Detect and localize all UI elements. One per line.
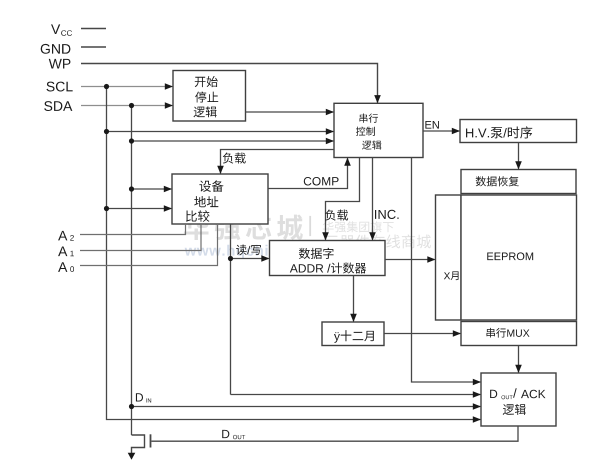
- wire SCL vertical down + to ACK logic: [107, 87, 481, 420]
- wire A0 to address compare: [80, 224, 218, 266]
- label A1 pin: [58, 247, 67, 257]
- text EEPROM: [487, 252, 533, 260]
- label A0 pin: [58, 262, 67, 272]
- watermark separator bar: [309, 216, 311, 236]
- wire data word to Y decoder: [353, 276, 355, 322]
- wire SDA branch to address compare: [132, 188, 172, 190]
- block: start/stop logic box: [173, 71, 246, 122]
- wire Din to ACK logic: [132, 406, 481, 408]
- node SDA junction: [129, 103, 134, 108]
- wire A1 to address compare: [80, 224, 201, 251]
- label Dout: [222, 430, 229, 438]
- block: X decoder box: [436, 195, 462, 320]
- text Dout/ACK line1: [490, 390, 497, 398]
- wire Vcc stub: [81, 28, 106, 30]
- block: serial MUX box: [461, 322, 577, 346]
- wire R/W vertical: [230, 224, 232, 395]
- wire Y decoder to serial MUX: [384, 333, 460, 335]
- block: Dout/ACK logic box: [481, 373, 556, 426]
- label load (lower): [325, 209, 348, 220]
- label WP pin: [49, 59, 71, 69]
- block: Y decoder box: [322, 322, 384, 346]
- label SCL pin: [46, 82, 72, 92]
- wire SCL to start/stop: [81, 86, 172, 88]
- text Dout/ACK line2: [503, 404, 526, 415]
- node SCL-ctl junction: [104, 129, 109, 134]
- text serial control line1: [360, 114, 379, 123]
- text device addr line2: [194, 196, 218, 207]
- block: device address compare box: [172, 174, 268, 224]
- label Din: [136, 393, 143, 401]
- text start/stop line1: [195, 76, 218, 87]
- text data word line1: [299, 248, 334, 259]
- wire GND stub: [81, 46, 106, 48]
- label EN: [425, 121, 439, 129]
- wire H.V. pump to data recovery: [518, 143, 520, 169]
- node SCL-cmp junction: [104, 206, 109, 211]
- transistor Q1 output MOSFET channel: [132, 435, 145, 455]
- text HV pump: [466, 126, 532, 138]
- wire serial MUX to ACK logic: [518, 346, 520, 373]
- node SCL junction: [104, 84, 109, 89]
- wire SCL branch to address compare: [107, 208, 172, 210]
- watermark www.hqchip.com: [185, 245, 315, 259]
- node Din junction: [129, 404, 134, 409]
- wire SDA to start/stop: [81, 105, 172, 107]
- node SDA-ctl junction: [129, 138, 134, 143]
- node SDA-cmp junction: [129, 186, 134, 191]
- text start/stop line2: [195, 92, 218, 103]
- wire load to data word counter: [326, 158, 360, 240]
- label SDA pin: [44, 101, 72, 111]
- wire start/stop to serial control: [246, 111, 334, 113]
- text serial MUX: [486, 328, 529, 338]
- wire R/W to ACK logic: [231, 394, 481, 396]
- watermark hqchip big text: [184, 214, 303, 240]
- wire R/W to data word counter: [231, 258, 269, 260]
- text addr counter line2: [290, 262, 366, 273]
- watermark group line 2: [325, 234, 431, 248]
- text Y decoder: [334, 330, 374, 343]
- wire serial control to ACK logic: [412, 158, 481, 383]
- wire load signal to address compare: [221, 150, 335, 174]
- text X decoder: [444, 271, 459, 280]
- text data recovery: [476, 176, 519, 186]
- label GND pin: [41, 44, 71, 54]
- text device addr line3: [186, 210, 210, 222]
- wire INC to data word counter: [372, 158, 374, 240]
- label INC.: [375, 210, 399, 219]
- wire WP to serial control top: [81, 64, 378, 103]
- label A2 pin: [58, 231, 67, 241]
- block: EEPROM array box: [461, 195, 577, 320]
- wire A2 to address compare: [80, 224, 186, 235]
- transistor Q1 gate bar: [150, 434, 152, 447]
- label load (upper): [223, 152, 246, 163]
- wire SCL branch to serial control: [107, 131, 334, 133]
- text serial control line3: [362, 140, 381, 149]
- wire EN to H.V. pump: [423, 130, 459, 132]
- watermark group line 1: [323, 221, 394, 232]
- wire data word to X decoder: [385, 259, 435, 261]
- wire COMP to serial control: [268, 158, 348, 188]
- node R/W junction: [228, 256, 233, 261]
- text start/stop line3: [193, 106, 216, 117]
- wire SDA branch to serial control: [132, 140, 334, 142]
- label COMP: [304, 177, 339, 186]
- block: H.V. pump/timing box: [460, 120, 577, 143]
- text serial control line2: [356, 127, 375, 136]
- block: data recovery box: [461, 170, 576, 194]
- block: serial control logic box: [334, 103, 423, 157]
- text device addr line1: [199, 180, 223, 192]
- wire Dout from ACK logic to output transistor gate: [151, 426, 518, 441]
- label Vcc pin: [51, 24, 60, 34]
- block: data word addr/counter box: [270, 241, 386, 276]
- wire SDA vertical down to output transistor: [131, 106, 133, 436]
- ground arrow on transistor source: [128, 453, 136, 460]
- label read/write: [236, 244, 261, 255]
